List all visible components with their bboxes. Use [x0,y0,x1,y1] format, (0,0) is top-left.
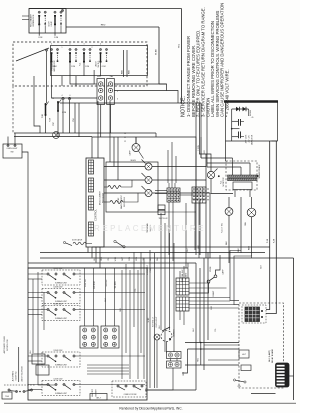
br cluster blade 2 [135,387,141,390]
svg-text:SW N.O.: SW N.O. [98,60,100,68]
left interlock drop [34,76,40,133]
control top wire 2 [97,137,99,158]
oven light [225,208,233,216]
bundle h1 [87,364,129,366]
oven cavity lamp [53,132,60,139]
svg-text:YEL: YEL [135,288,137,291]
svg-text:AUTOMATIC OVEN: AUTOMATIC OVEN [3,336,6,353]
dc wire 2 [200,103,202,131]
element wire l2 [104,179,145,181]
br cluster blade 1 [119,387,125,390]
mini fuse wire [158,211,196,213]
diode feed wire [232,108,249,110]
grid wire down 2 [172,202,174,261]
oven light sw pin1 [7,144,9,146]
svg-text:SW: SW [11,152,14,154]
door sw pin 2 [68,97,71,100]
dc wire 3c [207,162,250,164]
svg-text:FUSE: FUSE [210,266,212,272]
bottom cluster pin 4 [30,389,32,391]
connector P1 pin 2 fill [100,90,101,91]
bottom small switch [233,379,246,383]
grid L feed 2 [92,268,94,326]
grid R feed 1 [105,268,107,326]
cap bus vertical [231,109,233,141]
bottom cluster blade 1 [10,390,16,393]
bottom left switch cluster [4,384,35,386]
surface unit box [28,268,147,400]
surface cluster 4 wire left [28,355,47,357]
svg-text:COM: COM [71,66,76,68]
element wire l3 [104,192,145,194]
aux small box 2 [241,365,251,371]
connector P1 pin 3 ring [99,96,103,100]
pin above box [61,9,63,11]
surface cluster 1 pin 2 [55,273,57,275]
mesh dot 2 [200,348,202,350]
control bottom wire 1 [87,247,89,253]
dimmer blade [162,327,170,331]
svg-text:BROIL ELEMENT: BROIL ELEMENT [100,190,102,205]
surface cluster 5 wire left2 [28,389,42,391]
svg-text:4MF 14VS: 4MF 14VS [246,134,248,143]
svg-text:1250W 120V: 1250W 120V [54,304,64,306]
grid wire up 2 [171,142,173,183]
fan wire up [251,197,253,208]
wire W2 red [66,26,159,28]
band blade switch [114,240,125,248]
oven light wire down [228,215,230,263]
svg-text:RELAY BOARD: RELAY BOARD [271,348,274,363]
right vertical v196b [195,160,197,255]
surface box right vertical 2 [125,264,127,353]
surface cluster 4 wire left2 [28,360,42,362]
diode D1 [236,107,240,111]
svg-text:N.C.: N.C. [221,180,223,184]
cap stub 2 [232,128,240,130]
right box wire [272,140,278,142]
door lock box 2 [36,365,49,375]
oven lamp top [132,144,140,152]
surface cluster 2 pin 3 [63,291,65,293]
dc wire 1b [232,158,234,175]
relay dot 2 [261,316,263,318]
surface cluster 2 dot [55,297,57,299]
primary switch stub 1 [51,63,53,77]
door sw drop 3 [57,111,59,137]
mid vertical wire short 1 [160,213,162,330]
svg-text:TERMINAL BLK: TERMINAL BLK [181,269,184,283]
right long wire 1 [266,141,270,310]
switch S1 [38,11,46,25]
lower mesh bottom h [145,389,196,391]
control top wire 1 [91,137,93,158]
terminal grid B [192,187,206,203]
svg-text:REPLACEMENTURE: REPLACEMENTURE [94,224,206,233]
surface switch cluster 2 box [42,289,80,304]
element top vertical 3 [117,137,119,180]
control pin comb 1 [89,160,94,174]
bottom cluster pin 1 [8,389,10,391]
svg-text:MONITOR: MONITOR [223,177,225,187]
svg-text:+15: +15 [251,117,254,119]
rung 4 [28,262,196,264]
fuse F1 [207,275,217,283]
grid wire down 1 [168,202,170,255]
surface box left vertical 2 [38,272,55,385]
svg-text:GRN: GRN [211,305,213,310]
diode D2 [243,107,247,111]
mid vertical wire long 2 [154,253,156,388]
grid wire up 3 [175,156,177,183]
svg-text:LAMP: LAMP [222,269,225,275]
br cluster pin 4 [141,385,143,387]
thermal fuse body [45,102,49,117]
surface cluster 5 blade 1 [49,385,55,389]
svg-text:MAIN TOP: MAIN TOP [91,388,94,397]
grid M wire 2 [176,359,178,362]
y103 drop b [78,103,80,137]
svg-text:COM: COM [62,112,67,114]
dc wire 3 [206,103,208,167]
door switch body [57,100,61,113]
control top box edge [92,137,196,160]
switch S1 stub [38,25,40,36]
surface box right vertical 7 [143,258,145,379]
surface cluster 1 pin 1 [47,273,49,275]
svg-text:TRANSFORMER: TRANSFORMER [258,164,261,179]
grid wire up 4 [155,190,167,192]
element enclosure [106,162,158,212]
bottom cluster blade 2 [25,389,31,392]
rung 2 [40,252,265,254]
surface switch cluster 3 box [42,306,80,321]
grid rung a [189,282,210,284]
connector J1 pin 3 fill [110,97,111,98]
dc wire 4 [200,131,202,158]
door sw drop 1 [62,100,64,133]
dashed left drop [12,86,14,133]
primary interlock dashed box [13,42,147,86]
cap out 1 [241,120,245,122]
svg-text:+5V -12V: +5V -12V [249,134,251,142]
latch switch stub 2 [100,63,102,77]
svg-text:6: 6 [70,44,71,46]
lower mesh v2 [182,349,188,373]
dimmer circle [161,331,172,342]
control pin comb 4 [89,222,94,236]
lamp blade [139,151,144,159]
surface box right vertical 5 [137,270,139,379]
wire y141 [226,140,278,142]
svg-text:RED 3400W: RED 3400W [103,193,105,203]
svg-text:1250W 120V: 1250W 120V [54,350,64,352]
indicator lamp [154,334,160,340]
surface cluster 5 pin 3 [63,383,65,385]
grid A top stub 2 [171,183,173,188]
fast flux box 1 [158,205,165,210]
svg-text:1250W 120V: 1250W 120V [54,379,64,381]
multi-pin comb connector [276,363,290,387]
rung 5 [28,267,188,269]
door lock box 1 [32,354,45,364]
svg-text:P1: P1 [99,76,101,78]
transformer T1 secondary [228,178,258,180]
right vertical v206 [205,154,207,258]
svg-text:TOD: TOD [42,113,44,118]
aux vertical x46 [46,51,48,103]
rung 3 [40,257,294,259]
xfmr down pin 2 [249,190,251,198]
coil wire 1b [121,180,132,187]
surface cluster 2 wire right [75,292,145,294]
db2 wire in 2 [234,256,252,305]
surface cluster 2 wire left [28,292,47,294]
svg-text:TEST FLUX: TEST FLUX [158,218,168,220]
footer small box [90,394,107,401]
hi-limit box [239,350,249,358]
broil element coil [108,186,121,189]
wire W1 vertical drop [181,9,183,104]
connector J1 drop [110,105,112,134]
wire horizontal bus A [14,132,156,134]
svg-text:COM: COM [54,37,59,39]
dc wire 1c [201,157,233,159]
connector P1 pin 2 ring [99,88,103,92]
oven light sw wire up1 [7,137,9,145]
svg-text:3400W: 3400W [130,160,136,162]
svg-text:DOOR SW: DOOR SW [16,371,18,380]
relay inner dashed box [242,305,266,323]
connector wire right low [115,90,167,92]
svg-text:2: 2 [92,47,93,49]
svg-text:YEL: YEL [215,328,217,331]
switch S2 stub [54,25,56,36]
dimmer wire down [166,342,168,353]
element top vertical 4 [135,137,137,144]
monitor dot [218,175,220,177]
grid R wire up 2 [183,266,185,278]
surface cluster 3 pin 1 [47,308,49,310]
grid rung f [189,307,239,309]
svg-text:W-BK: W-BK [156,49,158,55]
power bar right drop [277,102,279,142]
fan motor [247,208,256,217]
bundle h3 [87,370,129,372]
lower mesh h1 [185,342,239,344]
svg-text:1250W 120V: 1250W 120V [54,287,64,289]
control pin comb 2 [89,178,94,192]
control bottom wire 4 [99,247,101,268]
grid A top stub 1 [168,183,170,188]
svg-text:RED: RED [129,69,131,74]
svg-text:COM: COM [53,66,58,68]
br cluster pin 1 [117,385,119,387]
primary switch stub 2 [69,63,71,77]
thick power bar [224,100,278,102]
grid wire down 3 [185,203,187,268]
bottom right cluster box [112,381,146,397]
control bottom wire 3 [95,247,97,263]
coil wire 1 [104,186,108,188]
terminal block grid R1 [176,278,189,295]
svg-text:BLK W-BK: BLK W-BK [94,280,96,289]
wire W2 vertical [158,27,160,84]
svg-text:LATCH SOLENOID: LATCH SOLENOID [21,366,24,382]
rung 1 [92,246,270,248]
cap junction [231,128,233,130]
surface cluster 4 pin 1 [47,355,49,357]
grid wire down 5 [198,203,200,258]
oven light sw box [3,144,22,158]
surface cluster 1 wire right [75,273,145,275]
blk wire mid [240,197,242,251]
left stub 1 [22,15,29,17]
wire horizontal bus B [14,136,92,138]
lower mesh long v2 [199,268,201,343]
oven light wire up [228,197,230,208]
lower mesh long v1 [195,263,197,390]
svg-text:1250W 120V: 1250W 120V [54,268,64,270]
svg-text:CAPACITOR: CAPACITOR [251,134,254,145]
svg-text:15 AMP: 15 AMP [212,290,215,297]
surface box right vertical 6 [140,252,142,353]
mid vertical wire short 3 [169,233,171,330]
surface cluster 3 pin 2 [55,308,57,310]
mid vertical wire long 1 [149,250,151,388]
surface switch cluster 1 box [42,270,80,285]
monitor wire up [199,103,211,171]
fan wire down [251,217,253,256]
grid B side dots [207,188,208,200]
svg-text:YEL GRN: YEL GRN [115,281,117,289]
broil receptacle 1 [142,160,153,171]
grid R wire up 1 [179,271,181,278]
svg-text:2: 2 [117,91,118,93]
surface cluster 1 blade 2 [65,275,71,279]
element top vertical 2 [113,137,115,167]
wire W2 steps [159,84,178,103]
surface cluster 5 wire left [28,384,47,386]
svg-text:DIMMER: DIMMER [174,329,176,337]
cap stub 1 [232,120,238,122]
svg-text:Rendered by DiscountApplianceP: Rendered by DiscountApplianceParts, INC. [119,407,182,411]
svg-text:P2: P2 [52,98,54,100]
surface cluster 2 blade 1 [49,293,55,297]
transformer dashed box [226,161,257,190]
y103 drop a [74,103,76,133]
svg-text:BURNER: BURNER [96,389,98,397]
surface cluster 5 pin 1 [47,383,49,385]
door sw drop 2 [45,115,47,133]
connector J1 pin 3 ring [108,96,112,100]
svg-text:W-BK: W-BK [118,197,120,202]
surface cluster 3 wire right [75,309,145,311]
bottom cluster pin 3 [23,390,25,392]
grid R wire down 1 [179,311,181,320]
svg-text:BLK: BLK [238,247,240,251]
surface cluster 3 wire left [28,309,47,311]
bus A drop right [155,133,157,137]
mesh dot 1 [200,342,202,344]
lower mesh long v4 [207,253,209,341]
connector grid block 2 [101,326,119,348]
surface cluster 5 dot [55,389,57,391]
control bottom wire 2 [91,247,93,258]
svg-text:HOT IND. LT: HOT IND. LT [153,316,155,327]
bottom right hwire [251,393,276,395]
surface switch cluster 5 box [42,381,80,396]
svg-text:CONTROL: CONTROL [95,208,98,220]
connector J1 outline [107,79,115,105]
svg-text:1: 1 [62,47,63,49]
grid R wire up 3 [187,263,189,278]
element wire r1 [152,166,206,168]
svg-text:OVEN LIGHT: OVEN LIGHT [156,316,158,328]
oven light sw wire right [22,152,28,268]
connector grid block 1 [80,326,98,348]
bottom cluster pin 2 [15,390,17,392]
right edge vertical [293,258,295,400]
bake element coil [110,201,123,204]
svg-text:DIODE: DIODE [250,109,252,116]
surface cluster 3 pin 3 [63,308,65,310]
grid rung e [189,304,234,306]
grid wire up 1 [167,150,169,183]
dc wire 4b [240,167,242,175]
svg-text:OVEN LIGHT: OVEN LIGHT [7,148,19,150]
surface cluster 3 wire left2 [28,314,42,316]
svg-text:W-BK: W-BK [148,317,150,322]
aux pin in dashed box [45,49,47,51]
grid wire down 4 [194,203,196,250]
left vertical wire [18,347,20,382]
element wire l1 [104,166,145,168]
svg-text:6: 6 [70,95,71,97]
transformer dot [257,175,259,177]
coil wire 2b [123,193,138,202]
corner TH box [2,392,12,399]
surface cluster 1 pin 3 [63,273,65,275]
connector wire right mid [115,83,167,85]
mid vertical wire short 4 [173,243,175,352]
grid R feed 2 [113,268,115,326]
transformer sub box [233,182,252,190]
svg-text:OVEN DOOR SW: OVEN DOOR SW [124,394,137,396]
svg-text:COM: COM [38,37,43,39]
element wire r3 [152,192,210,194]
cap out 2 [241,136,245,138]
bundle h2 [87,367,129,369]
secondary interlock box [29,9,66,34]
grid M wire 1 [170,359,172,362]
wire cluster to connector 2 [75,76,77,86]
svg-text:4: 4 [100,44,101,46]
lamp top wire [135,137,137,144]
surface box right vertical 1 [121,270,123,379]
connector P1 pin 1 ring [99,82,103,86]
latch switch stub 1 [83,63,85,77]
latch switch 1 [83,48,91,62]
svg-text:INTERLOCK: INTERLOCK [33,14,35,27]
grid wire up 5 [155,193,167,195]
relay dot 1 [261,310,263,312]
surface box left vertical 3 [43,292,45,330]
br cluster pin 2 [125,385,127,387]
lower mesh h3 [185,364,239,366]
lower mesh v1 [200,343,202,366]
svg-text:10: 10 [124,133,126,135]
